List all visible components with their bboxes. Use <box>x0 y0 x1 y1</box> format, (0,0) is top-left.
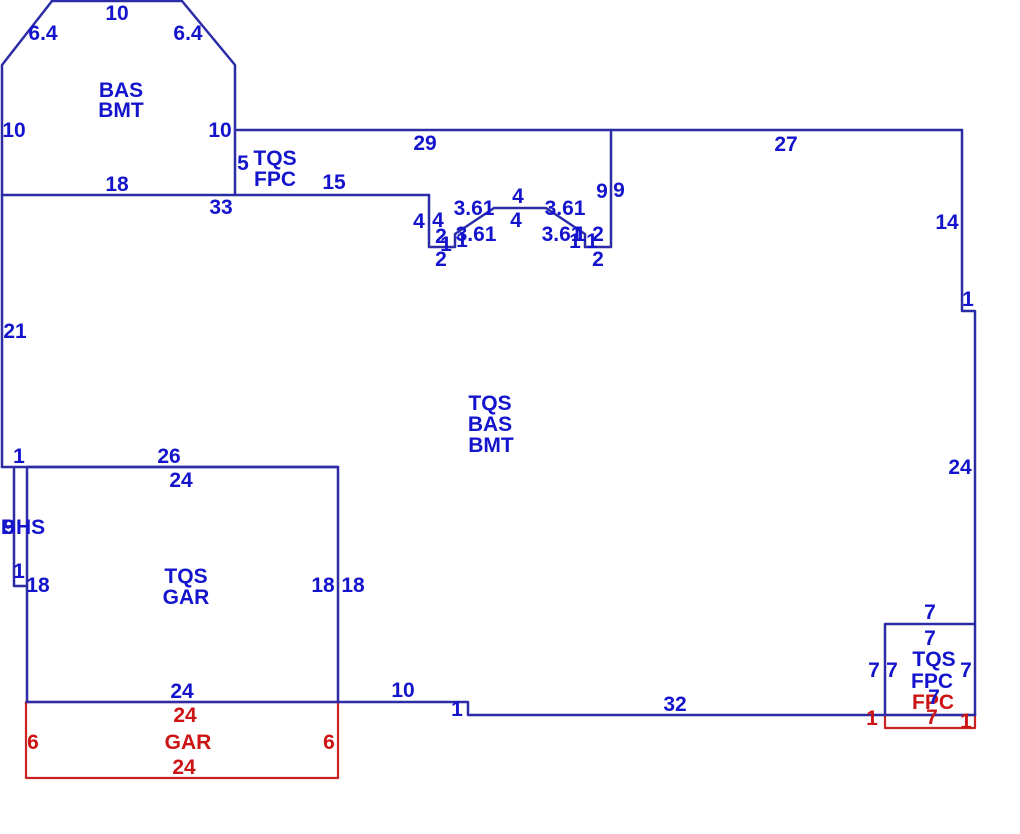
wall right side 14+1+24 <box>962 130 975 715</box>
svg-text:7: 7 <box>924 627 936 650</box>
svg-text:1: 1 <box>962 288 974 311</box>
svg-text:1: 1 <box>456 229 468 252</box>
svg-text:7: 7 <box>960 659 972 682</box>
svg-text:18: 18 <box>341 574 365 597</box>
svg-text:1: 1 <box>960 710 972 733</box>
svg-text:TQS: TQS <box>164 565 207 588</box>
svg-text:BMT: BMT <box>468 434 514 457</box>
svg-text:7: 7 <box>924 601 936 624</box>
svg-text:24: 24 <box>170 680 194 703</box>
wall TQS GAR box <box>27 467 338 702</box>
svg-text:10: 10 <box>391 679 414 702</box>
svg-text:2: 2 <box>435 248 447 271</box>
svg-text:TQS: TQS <box>912 648 955 671</box>
wall notch partition <box>429 130 611 247</box>
svg-text:6.4: 6.4 <box>28 22 58 45</box>
svg-text:9: 9 <box>613 179 625 202</box>
svg-text:18: 18 <box>311 574 335 597</box>
red GAR area outline <box>26 702 338 778</box>
svg-text:24: 24 <box>173 704 197 727</box>
wall BAS BMT top and right <box>52 1 235 195</box>
svg-text:32: 32 <box>663 693 686 716</box>
svg-text:4: 4 <box>510 209 522 232</box>
svg-text:6: 6 <box>27 731 39 754</box>
svg-text:27: 27 <box>774 133 797 156</box>
svg-text:BHS: BHS <box>1 516 45 539</box>
svg-text:FPC: FPC <box>254 168 296 191</box>
wall left diagonal and left side <box>2 1 52 467</box>
svg-text:1: 1 <box>451 698 463 721</box>
svg-text:1: 1 <box>866 707 878 730</box>
svg-text:10: 10 <box>2 119 25 142</box>
svg-text:TQS: TQS <box>468 392 511 415</box>
svg-text:10: 10 <box>105 2 128 25</box>
svg-text:10: 10 <box>208 119 231 142</box>
svg-text:4: 4 <box>512 185 524 208</box>
wall BHS strip <box>14 467 27 586</box>
svg-text:1: 1 <box>13 560 25 583</box>
svg-text:1: 1 <box>13 445 25 468</box>
wall TQS FPC small box <box>885 624 975 715</box>
wall bottom 32+1+10 <box>338 702 975 715</box>
svg-text:33: 33 <box>209 196 232 219</box>
svg-text:29: 29 <box>413 132 436 155</box>
wall top long 29+27 <box>235 129 962 132</box>
svg-text:9: 9 <box>596 180 608 203</box>
svg-text:18: 18 <box>105 173 129 196</box>
svg-text:BAS: BAS <box>468 413 512 436</box>
svg-text:2: 2 <box>592 248 604 271</box>
svg-text:24: 24 <box>169 469 193 492</box>
svg-text:21: 21 <box>3 320 27 343</box>
red FPC area outline <box>885 715 975 728</box>
svg-text:24: 24 <box>948 456 972 479</box>
svg-text:3.61: 3.61 <box>454 197 495 220</box>
svg-text:6.4: 6.4 <box>173 22 203 45</box>
svg-text:1: 1 <box>569 230 581 253</box>
svg-text:18: 18 <box>26 574 50 597</box>
svg-text:4: 4 <box>413 210 425 233</box>
svg-text:5: 5 <box>237 152 249 175</box>
svg-text:BMT: BMT <box>98 99 144 122</box>
svg-text:15: 15 <box>322 171 346 194</box>
svg-text:6: 6 <box>323 731 335 754</box>
svg-text:3.61: 3.61 <box>545 197 586 220</box>
wall 26 line <box>2 466 338 469</box>
svg-text:GAR: GAR <box>165 731 212 754</box>
svg-text:TQS: TQS <box>253 147 296 170</box>
wall BAS BMT / TQS FPC bottom <box>2 194 429 197</box>
svg-text:7: 7 <box>886 659 898 682</box>
svg-text:7: 7 <box>868 659 880 682</box>
svg-text:7: 7 <box>926 706 938 729</box>
svg-text:GAR: GAR <box>163 586 210 609</box>
svg-text:26: 26 <box>157 445 180 468</box>
svg-text:24: 24 <box>172 756 196 779</box>
svg-text:14: 14 <box>935 211 959 234</box>
